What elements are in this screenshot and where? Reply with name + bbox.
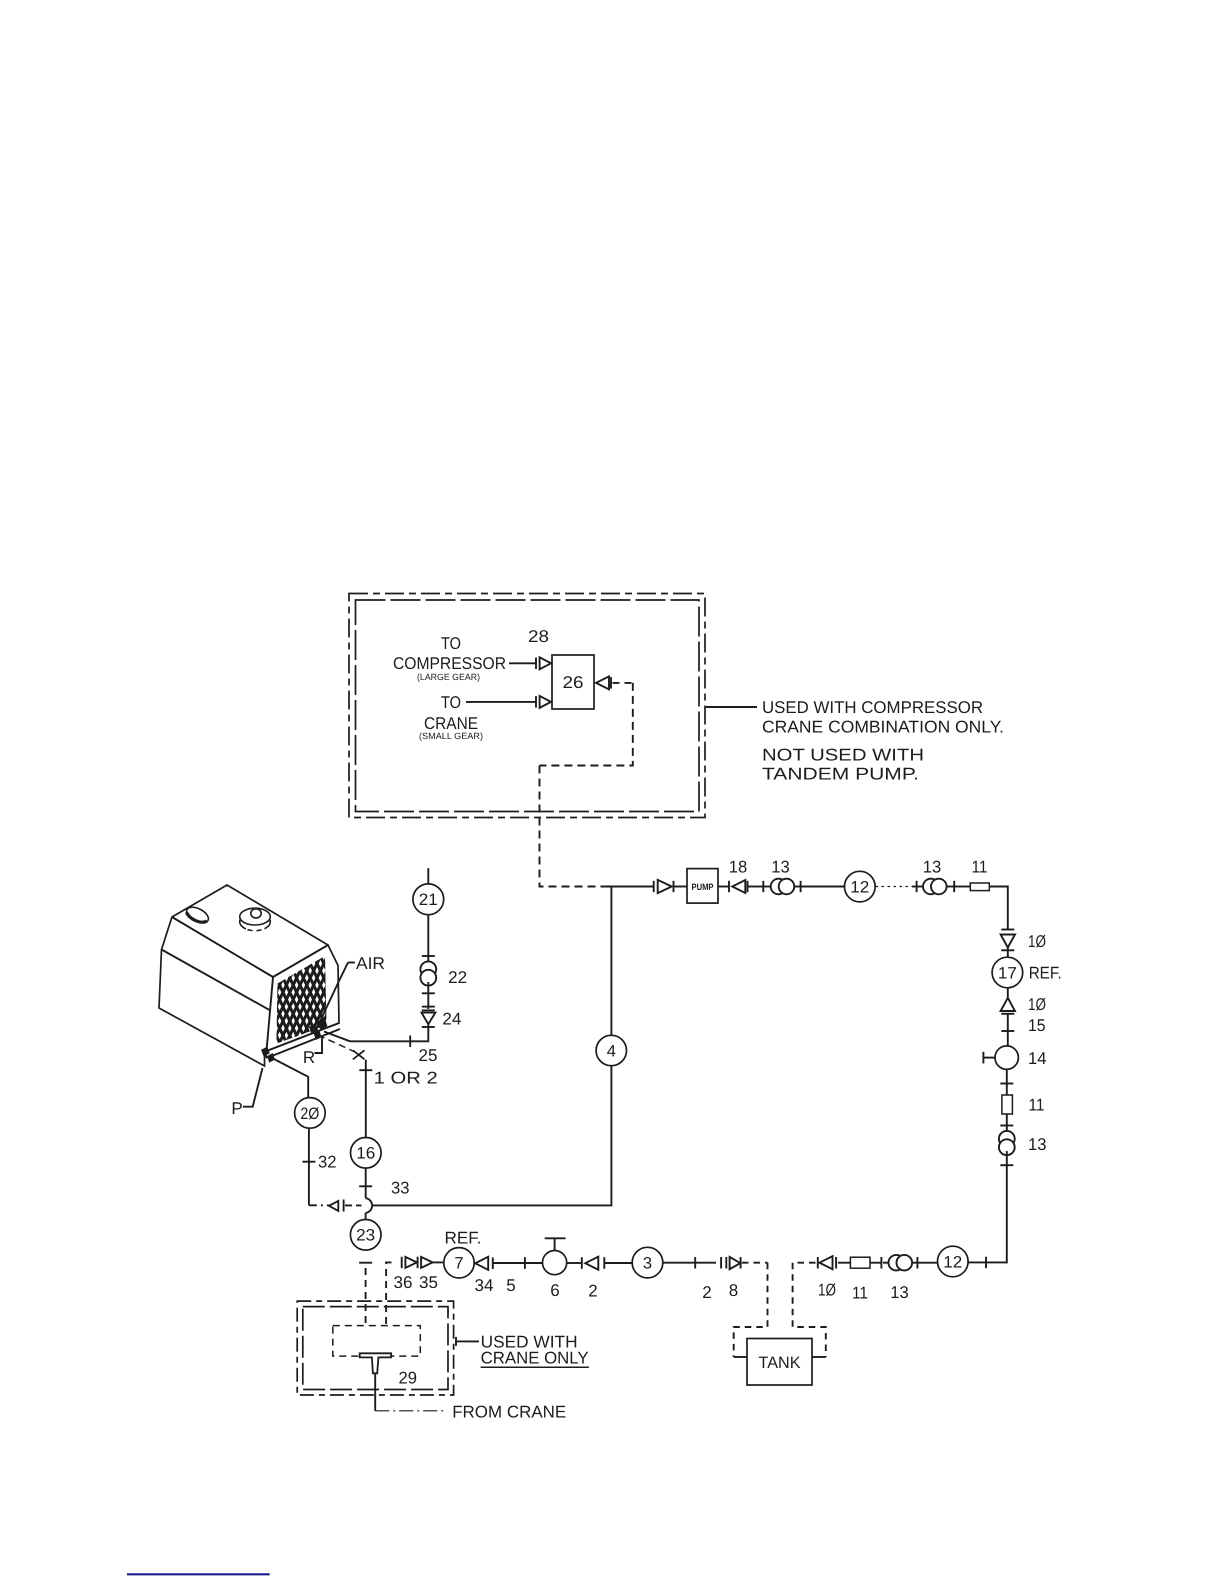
shut-off valve 6: [543, 1238, 567, 1274]
svg-text:14: 14: [1028, 1049, 1047, 1068]
wire: [1006, 1114, 1008, 1131]
svg-text:34: 34: [475, 1276, 494, 1295]
label 2: [702, 1283, 711, 1302]
reservoir screen mesh: [74, 953, 526, 1046]
label 15: [1028, 1016, 1046, 1035]
check valve before pump: [654, 880, 687, 893]
svg-text:TO: TO: [441, 693, 461, 712]
wire from TO CRANE to check valve: [466, 701, 536, 703]
wire down to bottom corner: [968, 1151, 1007, 1262]
label 10: [818, 1281, 836, 1300]
dashed enclosure: used-with-crane box (inner border): [303, 1307, 448, 1390]
dotted wire right of 12: [876, 886, 913, 888]
tick: [1000, 1164, 1013, 1166]
svg-text:18: 18: [729, 858, 748, 877]
text TO COMPRESSOR (LARGE GEAR): [393, 634, 506, 682]
component 14 (circle) with left stub: [983, 1046, 1018, 1069]
wire R-line above 16: [365, 1060, 367, 1138]
text FROM CRANE: [452, 1403, 566, 1422]
svg-text:1Ø: 1Ø: [1028, 932, 1046, 951]
dashed wire from 23 into crane box: [365, 1268, 367, 1324]
gauge 23: [350, 1220, 381, 1251]
dashed wire to tank (right drop): [793, 1263, 826, 1357]
tick: [762, 881, 764, 892]
label 11: [1029, 1096, 1045, 1115]
leader FROM CRANE: [375, 1410, 447, 1412]
label P with leader: [231, 1068, 262, 1118]
svg-text:(LARGE GEAR): (LARGE GEAR): [417, 672, 480, 682]
dash-dot wire right: [309, 1204, 329, 1206]
strainer 29 (tee symbol): [360, 1353, 391, 1373]
svg-text:33: 33: [391, 1178, 410, 1197]
blue rule (footer link line): [127, 1573, 270, 1575]
svg-text:8: 8: [729, 1281, 738, 1300]
tick: [1000, 1125, 1013, 1127]
svg-text:FROM CRANE: FROM CRANE: [452, 1403, 566, 1422]
tick 33: [359, 1185, 372, 1187]
check valve 10 (up): [1001, 998, 1015, 1014]
wire to restrictor 11: [954, 886, 970, 888]
label R with leader: [303, 1036, 322, 1067]
label 33: [391, 1178, 410, 1197]
label 29: [399, 1369, 418, 1388]
port AIR (black mark): [319, 1019, 327, 1030]
tick 5: [524, 1257, 526, 1269]
coupling 13 (second): [922, 879, 954, 895]
coupling 22: [420, 961, 436, 985]
inner dashed box (suction strainer outline): [333, 1326, 421, 1357]
svg-text:22: 22: [448, 968, 467, 987]
wire: [922, 1262, 938, 1264]
label REF.: [1029, 964, 1062, 983]
check valve out of 26 (right): [596, 676, 611, 689]
svg-text:7: 7: [454, 1255, 463, 1273]
dashed enclosure: compressor-crane combination box (outer border): [349, 594, 705, 818]
svg-text:12: 12: [850, 879, 869, 897]
svg-text:13: 13: [1028, 1135, 1047, 1154]
dashed branch corner: [386, 1262, 394, 1324]
gauge 3: [632, 1247, 663, 1278]
svg-text:24: 24: [442, 1010, 461, 1029]
svg-text:36: 36: [394, 1273, 413, 1292]
check valve 35: [418, 1257, 444, 1269]
svg-text:25: 25: [419, 1046, 438, 1065]
wire to right column corner: [989, 887, 1008, 930]
label 22: [448, 968, 467, 987]
tick 2: [694, 1257, 696, 1269]
svg-text:1Ø: 1Ø: [1028, 995, 1046, 1014]
gauge 12 (bottom): [938, 1246, 969, 1277]
wire 24 down to corner: [350, 1024, 428, 1041]
svg-text:CRANE ONLY: CRANE ONLY: [481, 1348, 589, 1367]
restrictor 11 (vertical): [1002, 1095, 1013, 1114]
label 5: [506, 1276, 515, 1295]
coupling 13 (right column): [999, 1131, 1015, 1155]
reservoir breather cap: [240, 908, 271, 931]
label 11: [852, 1284, 868, 1303]
gauge 20: [295, 1098, 326, 1129]
tick: [1000, 1083, 1013, 1085]
wire from TO COMPRESSOR to check valve: [509, 662, 536, 664]
svg-text:28: 28: [528, 627, 549, 646]
label 34: [475, 1276, 494, 1295]
svg-text:35: 35: [419, 1273, 438, 1292]
wire: [1006, 1069, 1008, 1095]
wire 16 to hop: [365, 1168, 367, 1198]
dashed enclosure: used-with-crane box (outer border): [297, 1301, 453, 1395]
check valve 18: [718, 880, 763, 893]
svg-text:REF.: REF.: [445, 1228, 482, 1247]
note: NOT USED WITH TANDEM PUMP: [762, 746, 924, 784]
svg-text:CRANE COMBINATION ONLY.: CRANE COMBINATION ONLY.: [762, 718, 1004, 737]
label 6: [550, 1281, 559, 1300]
svg-text:12: 12: [943, 1253, 962, 1271]
tick below 23: [359, 1262, 372, 1264]
dashed pilot line from 26 down to pump inlet: [540, 683, 633, 887]
text TO CRANE (SMALL GEAR): [419, 693, 483, 741]
gauge 12: [845, 871, 876, 902]
svg-text:21: 21: [419, 891, 438, 909]
svg-text:15: 15: [1028, 1016, 1046, 1035]
label 10: [1028, 932, 1046, 951]
reservoir body: [159, 885, 340, 1066]
svg-text:11: 11: [852, 1284, 868, 1303]
label 8: [729, 1281, 738, 1300]
svg-text:2Ø: 2Ø: [300, 1105, 319, 1123]
reservoir filler hole: [184, 904, 211, 926]
restrictor 11: [970, 883, 989, 891]
check valve 36: [402, 1257, 417, 1269]
text USED WITH CRANE ONLY: [481, 1333, 589, 1368]
tick: [422, 955, 435, 957]
wire into pump check valve: [605, 886, 654, 888]
svg-text:11: 11: [1029, 1096, 1045, 1115]
port R (black mark): [310, 1024, 322, 1039]
label 1 OR 2: [374, 1069, 438, 1088]
svg-text:USED WITH COMPRESSOR: USED WITH COMPRESSOR: [762, 698, 983, 717]
tick: [985, 1257, 987, 1269]
label 32: [318, 1153, 337, 1172]
svg-text:(SMALL GEAR): (SMALL GEAR): [419, 731, 483, 741]
svg-text:26: 26: [563, 673, 584, 692]
tick: [912, 881, 922, 892]
labels 36 35: [394, 1273, 439, 1292]
gauge 21: [413, 884, 444, 915]
wire: [427, 982, 429, 1009]
label 13: [771, 858, 790, 877]
leader USED WITH CRANE ONLY: [456, 1337, 479, 1346]
coupling 13 (pump line): [763, 879, 800, 895]
coupling 13 (bottom): [883, 1255, 922, 1271]
restrictor 11 (bottom): [850, 1257, 870, 1268]
wire: [870, 1262, 881, 1264]
svg-text:11: 11: [972, 858, 988, 877]
label 14: [1028, 1049, 1047, 1068]
dashed R suction line: [318, 1035, 354, 1052]
svg-text:REF.: REF.: [1029, 964, 1062, 983]
wire: [1007, 1014, 1009, 1031]
svg-text:16: 16: [356, 1145, 375, 1163]
pump: [687, 869, 718, 904]
air line from reservoir: [324, 1032, 350, 1042]
tick: [953, 881, 955, 892]
dashed enclosure: compressor-crane combination box (inner border): [356, 600, 700, 812]
svg-text:TANDEM PUMP.: TANDEM PUMP.: [762, 765, 919, 784]
tick 15: [1001, 1030, 1014, 1032]
svg-text:COMPRESSOR: COMPRESSOR: [393, 654, 506, 673]
check valve 8: [721, 1257, 741, 1269]
svg-text:13: 13: [771, 858, 790, 877]
check valve 34: [475, 1257, 524, 1270]
label 18: [729, 858, 748, 877]
svg-text:23: 23: [356, 1227, 375, 1245]
label 13: [890, 1283, 909, 1302]
wire: [663, 1262, 716, 1264]
label 10: [1028, 995, 1046, 1014]
wire pump inlet down (upper): [610, 887, 612, 1036]
tick: [880, 1257, 882, 1269]
svg-text:29: 29: [399, 1369, 418, 1388]
wire: [525, 1262, 543, 1264]
label 24: [442, 1010, 461, 1029]
tick: [800, 881, 802, 892]
check valve 10 (down): [1001, 935, 1015, 951]
wire to gauge 12: [801, 886, 845, 888]
wire 20 down: [308, 1128, 310, 1205]
wire pump inlet down (lower): [373, 1066, 611, 1206]
tick 25: [409, 1036, 411, 1048]
flow divider 26: [552, 655, 594, 709]
label 13: [923, 858, 942, 877]
svg-text:13: 13: [923, 858, 942, 877]
wire 21 down: [427, 915, 429, 962]
label 2: [588, 1282, 597, 1301]
tank: [747, 1339, 812, 1386]
X mark: [353, 1050, 365, 1059]
check valve 10 (bottom, pointing left): [818, 1256, 851, 1269]
check valve (return filter line): [329, 1200, 362, 1212]
svg-text:5: 5: [506, 1276, 515, 1295]
tick above check valve 10: [1001, 929, 1014, 931]
label 11: [972, 858, 988, 877]
svg-text:PUMP: PUMP: [692, 882, 714, 892]
check valve into 26 (upper): [536, 657, 551, 669]
wire hop to 23: [365, 1213, 367, 1220]
dashed wire to tank (left drop): [734, 1263, 768, 1357]
svg-text:1 OR 2: 1 OR 2: [374, 1069, 438, 1088]
svg-text:3: 3: [643, 1255, 652, 1273]
svg-text:17: 17: [998, 964, 1017, 982]
svg-text:13: 13: [890, 1283, 909, 1302]
leader line to note: [706, 706, 757, 708]
svg-text:R: R: [303, 1048, 315, 1067]
svg-text:AIR: AIR: [356, 954, 385, 973]
svg-text:TO: TO: [441, 634, 461, 653]
tick: [916, 1257, 918, 1269]
svg-text:2: 2: [588, 1282, 597, 1301]
svg-text:P: P: [231, 1099, 242, 1118]
svg-text:32: 32: [318, 1153, 337, 1172]
check valve 2: [567, 1257, 633, 1270]
tick 1: [359, 1069, 372, 1071]
svg-text:NOT USED WITH: NOT USED WITH: [762, 746, 924, 765]
gauge 4: [596, 1035, 626, 1065]
label AIR with leader: [316, 954, 385, 1030]
gauge 17 REF: [992, 948, 1023, 999]
label 28: [528, 627, 549, 646]
label REF. (7): [445, 1228, 482, 1247]
svg-text:1Ø: 1Ø: [818, 1281, 836, 1300]
wire: [1007, 1031, 1009, 1046]
label 13: [1028, 1135, 1047, 1154]
tick: [422, 992, 435, 994]
gauge 7: [444, 1248, 474, 1278]
check valve into 26 (lower): [536, 696, 551, 708]
check valve 24 (down): [422, 1007, 436, 1027]
P line from reservoir: [272, 1058, 308, 1098]
svg-text:4: 4: [607, 1042, 616, 1060]
label 25: [419, 1046, 438, 1065]
note: USED WITH COMPRESSOR CRANE COMBINATION ONLY: [762, 698, 1004, 737]
svg-text:TANK: TANK: [759, 1354, 801, 1372]
svg-text:2: 2: [702, 1283, 711, 1302]
tick 32: [302, 1161, 315, 1163]
gauge 16: [351, 1138, 382, 1169]
svg-text:6: 6: [550, 1281, 559, 1300]
wire from strainer down: [374, 1373, 376, 1411]
crossover hop: [366, 1198, 373, 1213]
port P (black mark): [262, 1047, 275, 1062]
vent stub above 21: [427, 868, 429, 884]
